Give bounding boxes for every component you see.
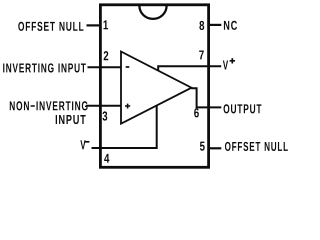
pin 8 lead (209, 24, 222, 26)
label OFFSET NULL pin 1 (18, 22, 83, 31)
label V- pin 4 (80, 140, 85, 149)
pin 5 number (200, 142, 205, 151)
wire pin 3 to non-inverting input (86, 105, 121, 107)
label INVERTING INPUT pin 2 (3, 63, 86, 72)
IC body DIP-8 outline U1 (100, 5, 208, 168)
pin 1 lead (87, 24, 101, 26)
label NC pin 8 (224, 21, 237, 30)
wire pin 2 to inverting input (88, 66, 122, 68)
op-amp U1 triangle (121, 52, 192, 124)
pin 2 number (104, 51, 109, 60)
superscript minus of V- (85, 141, 90, 143)
pin 3 number (102, 111, 107, 120)
pin 7 number (199, 50, 204, 59)
wire pin 4 V- to triangle bottom (92, 105, 157, 148)
pin 5 lead (209, 147, 222, 149)
wire output apex to pin 6 (191, 88, 221, 107)
label NON-INVERTING pin 3 line 1 (10, 101, 88, 110)
superscript plus of V+ (230, 58, 235, 63)
label V+ pin 7 (223, 61, 228, 70)
inverting input minus sign (126, 66, 130, 68)
pin 8 number (199, 21, 204, 30)
wire triangle top to pin 7 V+ (158, 66, 221, 70)
pin 1 number (104, 20, 109, 29)
label OUTPUT pin 6 (224, 104, 262, 113)
notch (pin-1 index semicircle) (139, 6, 166, 19)
pin 4 number (104, 154, 109, 163)
non-inverting input plus sign (125, 104, 130, 109)
label INPUT pin 3 line 2 (56, 115, 86, 124)
label OFFSET NULL pin 5 (225, 142, 288, 151)
pin 6 number (194, 108, 199, 117)
